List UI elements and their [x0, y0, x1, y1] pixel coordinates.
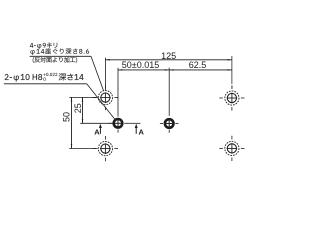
- extension/center line from left dowel: [117, 68, 119, 117]
- extension line from top-left hole: [104, 58, 106, 90]
- svg-text:50±0.015: 50±0.015: [122, 60, 159, 70]
- leader underline for 2-phi10 note: [4, 83, 87, 85]
- extension line upper row: [69, 96, 97, 98]
- extension line lower row: [69, 148, 97, 150]
- svg-text:A: A: [94, 127, 100, 136]
- svg-text:62.5: 62.5: [189, 60, 207, 70]
- leader underline for phi14 note: [30, 55, 91, 57]
- extension/center line from right dowel: [168, 68, 170, 116]
- svg-text:A: A: [138, 127, 144, 136]
- counterbored hole top-right: 4-d9 drill with d14 counterbore (dashed, far side): [219, 85, 244, 110]
- dimension 50 (vertical, left): [61, 97, 72, 148]
- leader line to dowel hole: [87, 84, 115, 119]
- section line right of dowel hole: [127, 122, 141, 124]
- extension line from top-right hole: [231, 56, 233, 89]
- dimension 62.5: [169, 60, 232, 71]
- dowel hole left: d10 H8 reamed, bold: [109, 119, 128, 133]
- svg-text:125: 125: [161, 51, 176, 61]
- extension/section line at dowel row, left of hole: [80, 122, 112, 124]
- section arrow A (right): [135, 124, 145, 137]
- counterbored hole top-left: 4-d9 drill with d14 counterbore (dashed, far side): [93, 85, 118, 110]
- svg-text:50: 50: [61, 112, 71, 122]
- counterbored hole bottom-right: 4-d9 drill with d14 counterbore (dashed, far side): [219, 136, 244, 161]
- dimension 125 (top): [105, 51, 231, 61]
- note: 2-phi10 H8 +0.022/0 depth 14: [5, 74, 42, 81]
- note: 4-phi9 drill, phi14 counterbore depth 8.6 (machined from opposite side): [30, 43, 57, 49]
- dowel hole right: d10 H8 reamed, bold: [160, 119, 179, 133]
- svg-text:25: 25: [73, 103, 83, 113]
- section arrow A (left): [94, 124, 102, 137]
- leader line to counterbore hole: [91, 56, 104, 91]
- dimension 25 (vertical): [73, 97, 83, 123]
- dimension 50±0.015 between dowel holes: [118, 60, 169, 71]
- counterbored hole bottom-left: 4-d9 drill with d14 counterbore (dashed, far side): [93, 136, 118, 161]
